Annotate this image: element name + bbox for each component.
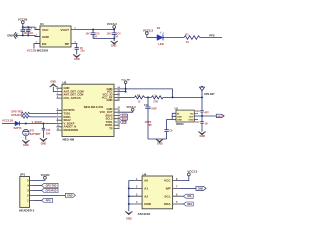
svg-text:B3520: B3520 xyxy=(176,123,184,126)
ground xyxy=(156,139,163,145)
resistor R3 xyxy=(22,112,30,115)
wire VOUT rail xyxy=(77,29,115,31)
diode D2 xyxy=(14,121,22,130)
svg-text:HEADER 5: HEADER 5 xyxy=(19,209,35,213)
node C14 tap xyxy=(147,96,149,98)
net flag GPS-TXD xyxy=(42,183,58,187)
svg-text:10V: 10V xyxy=(86,33,91,35)
pin stubs U2 right bottom xyxy=(100,107,121,130)
svg-text:NEO-6M: NEO-6M xyxy=(63,137,75,141)
wire VCC rail xyxy=(23,27,40,29)
svg-text:GND: GND xyxy=(67,194,73,197)
svg-text:GND: GND xyxy=(157,143,163,146)
battery BT1 xyxy=(23,129,41,139)
wire xyxy=(147,37,157,39)
svg-text:C14: C14 xyxy=(144,104,149,107)
svg-text:GND: GND xyxy=(50,81,56,84)
power flag VCC3.3 xyxy=(107,22,118,29)
svg-text:VCC3.3: VCC3.3 xyxy=(143,28,154,32)
svg-text:D1: D1 xyxy=(157,26,161,30)
svg-text:27N: 27N xyxy=(153,100,158,103)
svg-text:1N: 1N xyxy=(204,122,207,125)
svg-text:RESERVED: RESERVED xyxy=(64,128,79,132)
svg-text:PPS: PPS xyxy=(209,34,214,38)
svg-text:VCC: VCC xyxy=(164,179,171,183)
ground xyxy=(40,138,47,145)
svg-text:MIC5205: MIC5205 xyxy=(37,49,49,53)
svg-text:PPS: PPS xyxy=(122,122,127,124)
power flag VCC1N xyxy=(18,18,27,27)
net flag GND xyxy=(196,186,206,190)
wire WP to GND flag xyxy=(180,187,196,189)
svg-text:NC: NC xyxy=(190,113,194,115)
capacitor C3 xyxy=(86,30,101,39)
wire EN xyxy=(34,44,40,49)
ground flag flipped xyxy=(50,81,57,88)
ground xyxy=(125,211,132,220)
ground xyxy=(73,54,80,61)
LED D1 xyxy=(157,26,164,46)
wire C14 to ground xyxy=(148,138,167,140)
wire xyxy=(30,116,57,118)
wire xyxy=(2,123,15,125)
svg-text:SCL: SCL xyxy=(187,195,192,198)
resistor R1 xyxy=(184,32,200,43)
svg-text:GND: GND xyxy=(144,202,152,206)
svg-text:VCC3.3V: VCC3.3V xyxy=(2,118,13,122)
svg-text:CFG_ANT/CS: CFG_ANT/CS xyxy=(64,96,81,100)
capacitor C4 xyxy=(107,30,122,39)
svg-text:VOUT: VOUT xyxy=(60,28,69,32)
antenna ANT1 xyxy=(200,86,216,97)
svg-text:GND: GND xyxy=(7,35,13,38)
svg-text:WP: WP xyxy=(166,187,171,191)
capacitor C13 xyxy=(164,119,173,139)
wire VCC xyxy=(180,176,188,181)
svg-text:PPS: PPS xyxy=(46,199,51,202)
svg-text:GND: GND xyxy=(198,187,204,190)
wire xyxy=(163,37,184,39)
capacitor C5 xyxy=(75,47,86,55)
svg-text:BAT54: BAT54 xyxy=(14,127,22,130)
svg-text:22u: 22u xyxy=(80,49,85,52)
IC U3 SAW filter xyxy=(175,108,198,123)
wire antenna rail xyxy=(145,96,202,98)
ground flag GND xyxy=(7,32,17,39)
power flag VCC3.3 xyxy=(187,169,197,175)
svg-text:SDA: SDA xyxy=(164,202,171,206)
pin stubs U2 left bottom xyxy=(57,108,79,132)
capacitor C16 xyxy=(195,97,209,116)
net flag SDA xyxy=(184,202,194,206)
capacitor C14 xyxy=(144,97,157,139)
svg-text:A2: A2 xyxy=(144,194,148,198)
wire xyxy=(180,203,183,205)
svg-text:SCL: SCL xyxy=(164,194,170,198)
pin stubs U2 left top xyxy=(57,86,85,100)
svg-text:GND: GND xyxy=(42,35,50,39)
wire xyxy=(30,113,57,115)
svg-text:EN: EN xyxy=(42,42,47,46)
svg-text:104: 104 xyxy=(93,35,98,38)
net flag GPS-RXD xyxy=(42,188,58,192)
svg-text:ANT1: ANT1 xyxy=(217,115,223,118)
svg-text:GND: GND xyxy=(41,142,47,145)
svg-text:OUT: OUT xyxy=(189,116,194,118)
ground xyxy=(198,132,205,138)
wire xyxy=(34,194,66,196)
node VCC_RF join xyxy=(172,96,174,98)
wire GND to pin xyxy=(53,87,56,92)
wire to R2 xyxy=(120,96,135,98)
capacitor C15 xyxy=(42,124,51,138)
svg-text:VCC3.3: VCC3.3 xyxy=(126,105,136,109)
ground xyxy=(22,140,29,147)
svg-text:100P: 100P xyxy=(151,108,157,110)
svg-text:GPS ANT: GPS ANT xyxy=(204,93,215,96)
wire U3 gnd xyxy=(167,118,176,120)
net flag GND xyxy=(65,193,75,197)
capacitor C17 xyxy=(195,116,208,132)
svg-text:VCC1N: VCC1N xyxy=(27,49,36,53)
svg-text:GND: GND xyxy=(126,218,132,221)
svg-text:BATTERY: BATTERY xyxy=(30,133,41,136)
pin stubs U2 right top xyxy=(102,86,121,102)
svg-text:4P7: 4P7 xyxy=(204,112,209,115)
wire to flag xyxy=(194,115,216,117)
connector JP1 xyxy=(20,173,34,208)
svg-text:VCC: VCC xyxy=(42,28,49,32)
wire VCCIN xyxy=(34,179,45,180)
net flag SCL2 xyxy=(120,117,129,121)
svg-text:V_BCKP: V_BCKP xyxy=(32,121,42,124)
svg-text:GND: GND xyxy=(111,45,117,48)
net flag PPS xyxy=(42,198,53,202)
wire VCC pins to power xyxy=(120,86,173,98)
svg-text:104: 104 xyxy=(46,132,51,135)
resistor R4 xyxy=(22,116,30,119)
resistor R2 xyxy=(135,94,145,103)
svg-text:2PF: 2PF xyxy=(148,125,153,127)
svg-text:BP: BP xyxy=(65,42,69,46)
capacitor C2 xyxy=(26,26,34,36)
wire V_BCKP xyxy=(20,123,57,125)
IC U4 EEPROM xyxy=(134,172,180,208)
svg-text:GND: GND xyxy=(189,119,194,121)
capacitor C1 xyxy=(21,26,29,36)
wire VCC3.3 right xyxy=(120,111,133,112)
IC U1 regulator xyxy=(35,22,78,47)
svg-text:C17: C17 xyxy=(195,121,200,124)
svg-text:SDA: SDA xyxy=(187,203,192,206)
svg-text:GND: GND xyxy=(177,116,182,118)
wire xyxy=(200,37,222,39)
svg-text:R1: R1 xyxy=(185,32,189,36)
svg-text:U1: U1 xyxy=(40,22,44,26)
wire xyxy=(34,199,42,201)
wire xyxy=(34,189,42,191)
node antenna join xyxy=(201,96,203,98)
wire GND bus xyxy=(128,181,135,212)
svg-text:GPS-RXD: GPS-RXD xyxy=(46,189,57,192)
IC U2 GPS module xyxy=(62,80,114,136)
power flag VCC3.3 xyxy=(126,105,136,111)
svg-text:GND: GND xyxy=(74,58,80,61)
net flag SDA2 xyxy=(120,114,129,118)
svg-text:VCC3.3: VCC3.3 xyxy=(107,22,118,26)
net flag PPS xyxy=(120,121,127,125)
svg-text:10V: 10V xyxy=(107,33,112,35)
wire xyxy=(34,184,42,186)
inductor L1 xyxy=(151,94,163,103)
svg-text:LED: LED xyxy=(158,42,164,46)
svg-text:470PF: 470PF xyxy=(145,121,152,124)
power flag VCCIN xyxy=(41,173,50,179)
svg-text:GND: GND xyxy=(23,144,29,147)
net flag ANT1 xyxy=(216,114,224,118)
svg-text:GPS-RXD: GPS-RXD xyxy=(11,114,23,117)
svg-text:A0: A0 xyxy=(144,179,148,183)
svg-text:C16: C16 xyxy=(195,110,200,113)
net flag SCL xyxy=(184,194,194,198)
wire BP xyxy=(76,44,78,48)
svg-text:GPS-TXD: GPS-TXD xyxy=(46,184,57,187)
svg-text:GND: GND xyxy=(200,135,206,138)
svg-text:AT24C32: AT24C32 xyxy=(138,212,151,216)
svg-text:A1: A1 xyxy=(144,187,148,191)
svg-text:GND: GND xyxy=(177,119,182,121)
svg-text:GND: GND xyxy=(107,98,113,102)
wire U3 in xyxy=(172,113,176,119)
svg-text:NEO-6M-0-001: NEO-6M-0-001 xyxy=(84,105,104,109)
wire cap bottom rail xyxy=(93,39,114,42)
power flag VCC3.3 LED xyxy=(143,28,154,37)
ground xyxy=(111,41,118,48)
svg-text:TP: TP xyxy=(109,126,113,130)
wire xyxy=(180,195,183,197)
wire GND rail xyxy=(16,35,40,36)
